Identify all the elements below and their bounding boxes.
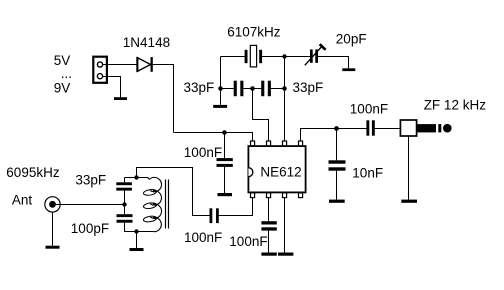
pin top 2 [267, 141, 271, 146]
capacitor 33pF series left [221, 88, 234, 90]
wire coil top to 100nF series [137, 168, 210, 216]
capacitor 33pF tank top [124, 178, 126, 183]
wire between series caps [243, 88, 261, 90]
svg-text:33pF: 33pF [184, 80, 215, 95]
ground (antenna) [46, 246, 60, 249]
capacitor 100pF tank bottom [117, 214, 133, 217]
notch [248, 168, 253, 177]
node feedback left [218, 86, 223, 91]
wire pin 4/5 output up to output rail [301, 129, 367, 142]
svg-text:10nF: 10nF [352, 165, 383, 180]
connector antenna input [45, 197, 60, 212]
wire antenna to tank [56, 204, 125, 206]
wire pin 3 to ground [284, 198, 286, 253]
wire 33pF bottom through tap to 100pF top [124, 191, 126, 215]
ground (decoupling cap) [218, 193, 233, 196]
capacitor 33pF series right [261, 81, 264, 97]
svg-text:100nF: 100nF [350, 101, 388, 116]
wire caps midpoint to pin 7 [253, 89, 269, 142]
wire cap to jack [375, 128, 401, 130]
wire caps top to coil top node [125, 177, 137, 179]
wire jack sleeve to ground [408, 136, 410, 200]
capacitor 100nF output coupling [366, 120, 369, 135]
svg-text:100nF: 100nF [184, 230, 222, 245]
connector J1 jack ZF out [400, 120, 416, 136]
pin top 3 [283, 141, 287, 146]
node antenna tap [122, 202, 126, 206]
wire antenna shield to ground [52, 212, 54, 246]
ground (10nF) [329, 200, 345, 203]
capacitor 10nF output filter [336, 129, 338, 161]
node feedback right [282, 86, 287, 91]
capacitor 100nF pin2 bypass [268, 198, 270, 222]
capacitor 100nF decoupling [224, 133, 226, 159]
ground (tank) [136, 232, 138, 249]
node series caps midpoint [250, 86, 255, 91]
node output rail [334, 126, 339, 131]
capacitor 100nF input coupling [210, 208, 213, 223]
svg-text:6107kHz: 6107kHz [227, 24, 281, 39]
wire supply rail to pin 8 [174, 133, 253, 142]
inductor L1 tank coil [137, 178, 150, 180]
wire diode cathode to supply rail [153, 65, 174, 133]
ground (trimmer) [342, 68, 355, 71]
node crystal right [282, 54, 286, 58]
svg-text:100nF: 100nF [184, 145, 222, 160]
ground (pin 3) [278, 253, 293, 256]
transformer core [165, 180, 167, 229]
connector X1 battery 5V-9V [93, 57, 107, 83]
wire crystal left down to feedback node [220, 57, 222, 89]
pin top 4 [299, 141, 303, 146]
svg-text:9V: 9V [54, 80, 71, 95]
pin 8 top [251, 141, 255, 146]
svg-text:100pF: 100pF [71, 221, 109, 236]
svg-text:ZF 12 kHz: ZF 12 kHz [424, 98, 487, 113]
svg-text:20pF: 20pF [336, 31, 367, 46]
svg-text:NE612: NE612 [260, 165, 301, 180]
svg-text:Ant: Ant [12, 193, 33, 208]
svg-text:6095kHz: 6095kHz [6, 165, 60, 180]
svg-text:1N4148: 1N4148 [123, 35, 170, 50]
node coil bottom [134, 229, 138, 233]
ground (battery minus) [114, 97, 127, 100]
wire crystal right down to pin 6 [284, 57, 286, 142]
node supply rail / decoupling [222, 130, 227, 135]
pin bottom 2 [267, 193, 271, 198]
svg-text:33pF: 33pF [293, 80, 324, 95]
svg-text:100nF: 100nF [229, 234, 267, 249]
IC U1 NE612 [248, 146, 305, 192]
pin bottom 1 [251, 193, 255, 198]
wire connector plus to diode anode [103, 64, 137, 66]
ground (feedback divider) [220, 89, 222, 105]
crystal Q1 6107kHz [221, 56, 245, 58]
ground (jack) [401, 200, 417, 203]
svg-text:...: ... [61, 66, 72, 81]
wire connector minus to ground [103, 77, 121, 98]
svg-text:33pF: 33pF [75, 172, 106, 187]
trimmer capacitor 20pF [285, 56, 311, 58]
pin bottom 4 [299, 193, 303, 198]
ground (pin2 cap) [261, 253, 276, 256]
diode D1 1N4148 [137, 58, 150, 72]
node coil top [134, 175, 138, 179]
pin bottom 3 [283, 193, 287, 198]
